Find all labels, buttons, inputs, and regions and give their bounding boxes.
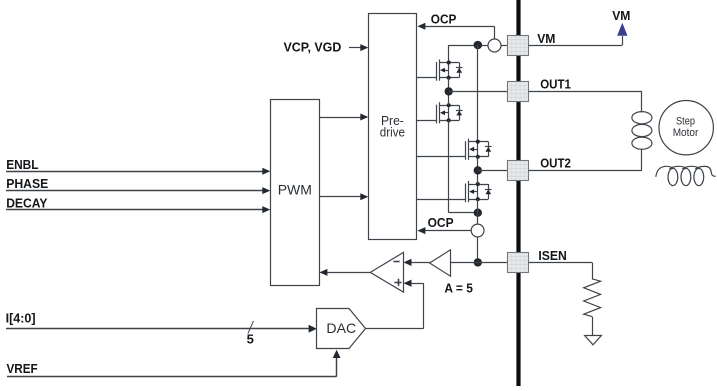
svg-text:drive: drive xyxy=(380,125,405,140)
svg-text:VREF: VREF xyxy=(7,361,38,376)
svg-text:5: 5 xyxy=(247,332,254,347)
svg-text:VM: VM xyxy=(612,8,630,23)
svg-text:PHASE: PHASE xyxy=(6,176,48,191)
svg-text:OCP: OCP xyxy=(428,215,454,230)
svg-text:Motor: Motor xyxy=(673,127,699,139)
svg-text:DECAY: DECAY xyxy=(6,195,48,210)
svg-text:VM: VM xyxy=(537,31,555,46)
svg-text:OCP: OCP xyxy=(431,12,457,27)
svg-text:OUT1: OUT1 xyxy=(540,77,571,92)
svg-text:A = 5: A = 5 xyxy=(444,280,473,295)
svg-text:VCP, VGD: VCP, VGD xyxy=(284,39,342,54)
svg-text:DAC: DAC xyxy=(326,320,356,336)
svg-text:Step: Step xyxy=(676,115,695,127)
svg-text:ISEN: ISEN xyxy=(538,248,566,263)
svg-text:I[4:0]: I[4:0] xyxy=(6,310,36,325)
svg-text:ENBL: ENBL xyxy=(6,157,38,172)
svg-text:PWM: PWM xyxy=(278,182,312,198)
svg-text:OUT2: OUT2 xyxy=(540,156,571,171)
